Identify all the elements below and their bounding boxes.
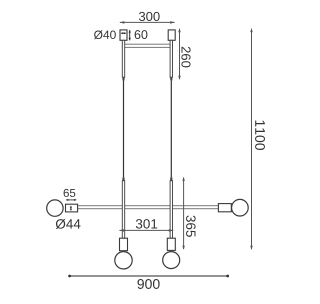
dimension 260 (right of canopy) bbox=[178, 28, 181, 79]
drop rod top-right bbox=[170, 40, 172, 77]
bulb right (horizontal) bbox=[232, 199, 249, 216]
socket right bbox=[218, 204, 231, 212]
hanging bulb right bbox=[163, 252, 180, 269]
lower rod right bbox=[170, 181, 172, 239]
dimension 301 bbox=[119, 229, 173, 232]
dimension 900 (bottom) bbox=[68, 275, 229, 278]
label Ø40 bbox=[94, 30, 116, 39]
label 260 (rotated) bbox=[181, 47, 190, 68]
canopy height arrow (60) bbox=[129, 30, 131, 41]
hanging bulb left bbox=[115, 252, 132, 269]
label 300 bbox=[139, 12, 160, 21]
hanging socket left bbox=[120, 238, 128, 251]
suspension cable left bbox=[123, 80, 125, 177]
canopy left bbox=[120, 30, 127, 40]
suspension cable right bbox=[170, 80, 172, 177]
lower rod left bbox=[122, 181, 124, 239]
top bar (horizontal tube between drop rods) bbox=[122, 44, 172, 47]
label 900 bbox=[137, 279, 159, 289]
rod tip top-left bbox=[122, 77, 124, 80]
drop rod top-left bbox=[122, 40, 124, 77]
socket height arrow bbox=[70, 206, 72, 212]
canopy width arrow (Ø40 pointer) bbox=[121, 32, 127, 34]
arrow 65 bbox=[66, 199, 77, 201]
label 1100 (rotated) bbox=[255, 120, 265, 150]
label Ø44 bbox=[56, 219, 81, 229]
canopy right bbox=[168, 30, 175, 40]
dimension 1100 (overall height) bbox=[250, 28, 253, 249]
label 365 (rotated) bbox=[186, 215, 196, 236]
dimension 300 (top) bbox=[120, 21, 175, 24]
main bar (900 tube with lamp holders) bbox=[78, 206, 219, 209]
dimension 365 bbox=[182, 177, 185, 249]
label 301 bbox=[136, 219, 157, 229]
label 60 bbox=[135, 30, 148, 39]
socket left bbox=[66, 204, 78, 212]
rod cap bottom-right bbox=[170, 177, 172, 180]
bulb left (horizontal) bbox=[47, 200, 63, 216]
hanging socket right bbox=[167, 238, 175, 250]
rod tip top-right bbox=[170, 77, 172, 80]
label 65 bbox=[64, 189, 76, 197]
rod cap bottom-left bbox=[122, 177, 124, 180]
